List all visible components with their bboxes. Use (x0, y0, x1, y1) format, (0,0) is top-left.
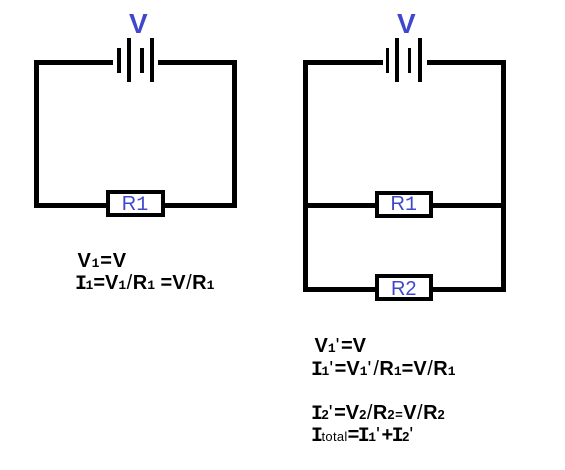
battery V (left circuit) short plate 2 (140, 48, 144, 73)
battery V (right circuit) short plate 2 (408, 48, 412, 73)
battery V (left circuit) long plate 1 (127, 38, 131, 82)
wire left vertical (right circuit) (303, 60, 308, 292)
wire right vertical (right circuit) (501, 60, 506, 292)
battery V (right circuit) short plate 1 (386, 48, 390, 73)
formula line I1=V1/R1 =V/R1 (left) (77, 273, 215, 295)
battery V (left circuit) short plate 1 (117, 48, 121, 73)
wire middle branch through R1 (right circuit) (303, 203, 506, 208)
formula line V1'=V (right) (315, 336, 367, 356)
wire bottom (left circuit) (34, 203, 237, 208)
wire top-right segment (left circuit) (158, 60, 237, 65)
wire right vertical (left circuit) (232, 60, 237, 208)
wire bottom branch through R2 (right circuit) (303, 287, 506, 292)
wire top-left segment (left circuit) (34, 60, 113, 65)
node V label (right battery) (397, 10, 416, 38)
node V label (left battery) (129, 10, 148, 38)
resistor R1 (right circuit) (375, 191, 433, 218)
formula line Itotal=I1'+I2' (right) (313, 425, 415, 447)
battery V (left circuit) long plate 2 (150, 38, 154, 82)
battery V (right circuit) long plate 2 (418, 38, 422, 82)
formula line I1'=V1'/R1=V/R1 (right) (313, 359, 456, 381)
resistor R2 (right circuit) (375, 274, 433, 301)
wire top-left segment (right circuit) (303, 60, 383, 65)
formula line I2'=V2/R2=V/R2 (right) (313, 403, 445, 425)
battery V (right circuit) long plate 1 (395, 38, 399, 82)
wire left vertical (left circuit) (34, 60, 39, 208)
formula line V1=V (left) (78, 251, 127, 271)
resistor R1 (left circuit) (106, 190, 165, 217)
wire top-right segment (right circuit) (427, 60, 506, 65)
